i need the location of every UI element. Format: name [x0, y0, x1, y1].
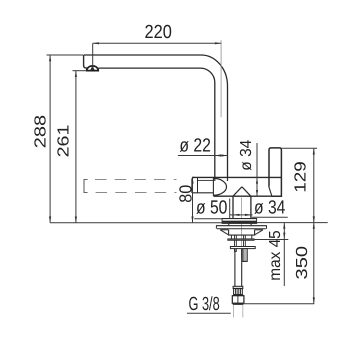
fitting bottom rim — [233, 303, 244, 305]
dimension 350 bottom extension — [244, 303, 314, 305]
second hose stub cut edge — [242, 260, 248, 262]
mounting bracket left diagonal — [220, 230, 229, 235]
dimension 261 line — [75, 71, 77, 223]
dimension diameter 22 left arrow — [215, 154, 221, 156]
body left rounded corner edge — [192, 177, 194, 193]
svg-text:220: 220 — [145, 22, 172, 43]
dimension 350 bottom arrow — [313, 297, 315, 303]
dimension 220 extension aerator center — [92, 43, 94, 70]
dimension 129 bottom arrow — [313, 216, 315, 222]
svg-text:129: 129 — [293, 161, 310, 193]
phantom pipe left — [233, 305, 235, 318]
dimension 129 top arrow — [313, 148, 315, 154]
dimension diameter 22 leader — [178, 155, 215, 157]
svg-text:288: 288 — [33, 115, 50, 148]
svg-text:80: 80 — [175, 184, 195, 202]
body cone — [233, 187, 251, 196]
dimension diameter 22 right arrow — [221, 154, 227, 156]
fitting crimp rib 4 — [240, 289, 242, 295]
max45 bottom extension line — [254, 239, 288, 241]
dashed handle top line — [95, 179, 177, 181]
dimension diameter 34 column left arrow — [233, 214, 239, 216]
body D joint chord — [212, 178, 214, 196]
dimension 288 line — [49, 55, 51, 223]
aerator center wedge — [90, 66, 95, 71]
body inner top line — [198, 179, 214, 181]
bracket neck left — [230, 235, 232, 239]
svg-text:350: 350 — [294, 246, 311, 280]
svg-text:ø 22: ø 22 — [179, 136, 211, 157]
dimension 220 left arrow — [93, 42, 99, 44]
dimension max45 up arrow — [283, 223, 285, 229]
dimension 288 top arrow — [49, 55, 51, 61]
dimension diameter 34 body up arrow — [256, 177, 258, 183]
neck right — [250, 223, 252, 225]
handle bottom wedge — [269, 187, 272, 197]
centerline — [240, 198, 242, 259]
dimension 129 top extension — [281, 147, 317, 149]
fitting crimp rib 2 — [236, 289, 238, 295]
dimension 80 line — [192, 177, 194, 222]
dimension 220 right arrow — [215, 42, 221, 44]
column below body — [232, 196, 234, 218]
handle cylinder — [269, 148, 281, 196]
dimension 288 top extension — [47, 54, 84, 56]
dimension diameter 50 drop line — [229, 199, 231, 219]
body D joint dome arc — [214, 178, 227, 195]
dimension 220 line — [93, 42, 221, 44]
dimension diameter 50 leader line — [230, 214, 253, 216]
dimension diameter 22 line — [215, 155, 228, 157]
body left bottom line — [192, 192, 213, 194]
fitting crimp ribs body — [234, 289, 243, 295]
base plate — [222, 219, 257, 224]
mounting bracket left wing — [220, 229, 228, 231]
washer bar dark (max45 reference) — [228, 239, 255, 241]
dimension diameter 50 underline to plate — [194, 218, 222, 220]
body left cap divider — [197, 178, 199, 193]
counter left end tick — [215, 226, 217, 229]
svg-text:ø 50: ø 50 — [196, 197, 227, 218]
svg-text:max 45: max 45 — [267, 230, 284, 281]
fitting hex facet line — [237, 296, 239, 304]
spout horizontal tube top outline with bend — [84, 55, 228, 177]
washer bar lower — [230, 247, 255, 249]
spout tube bottom inner line with bend — [98, 68, 215, 177]
dimension diameter 34 body line — [256, 143, 258, 196]
counter top line — [216, 225, 267, 227]
counter right end tick — [266, 226, 268, 229]
threaded stud right — [244, 235, 246, 251]
dimension 350 top arrow — [313, 223, 315, 229]
fitting hex nut — [232, 296, 244, 304]
second hose stub — [243, 249, 247, 262]
fitting collar — [233, 286, 243, 288]
fitting crimp rib 3 — [238, 289, 240, 295]
body top line — [192, 176, 281, 178]
fitting washer band — [233, 295, 243, 296]
dimension 80 bottom arrow — [191, 217, 193, 223]
hose tube right line — [241, 249, 243, 287]
dimension 261 top extension — [73, 70, 87, 72]
dimension max45 line — [283, 223, 285, 286]
svg-text:ø 34: ø 34 — [238, 140, 255, 171]
counter bottom line — [217, 228, 266, 230]
dimension diameter 34 column right arrow — [245, 214, 251, 216]
label G 3/8 underline — [187, 312, 231, 314]
dimension diameter 34 column underline — [252, 216, 288, 218]
dimension 261 bottom arrow — [75, 217, 77, 223]
column right edge — [250, 196, 252, 218]
mounting bracket right wing — [255, 229, 263, 231]
base plate gray band — [223, 220, 257, 222]
aerator dome — [87, 66, 98, 71]
bracket neck right — [251, 235, 253, 239]
spout end cap — [84, 55, 88, 68]
dimension 261 top arrow — [75, 71, 77, 77]
neck between plate and counter — [228, 223, 230, 225]
fitting crimp rib 1 — [234, 289, 236, 295]
dimension max45 down arrow — [283, 233, 285, 239]
mounting bracket cup — [229, 230, 255, 235]
hose tube left line — [234, 249, 236, 287]
base reference line left — [50, 222, 229, 224]
dashed handle swing outline bracket — [84, 180, 88, 193]
dimension 220 extension tube center — [220, 40, 222, 117]
threaded stud left — [235, 235, 237, 251]
svg-text:ø 34: ø 34 — [254, 198, 286, 219]
svg-text:G 3/8: G 3/8 — [189, 294, 220, 315]
dimension 288 bottom arrow — [49, 217, 51, 223]
base plate dark band — [222, 221, 257, 224]
dimension 350 line — [313, 223, 315, 304]
tube seat stub left — [214, 178, 216, 181]
dashed handle bottom line — [96, 192, 177, 194]
dimension diameter 34 body down arrow — [256, 190, 258, 196]
counter reference line right — [257, 222, 328, 224]
tube seat stub right — [227, 178, 229, 181]
body right bottom line — [213, 195, 281, 197]
dimension 129 line — [313, 148, 315, 222]
dimension 80 top arrow — [191, 177, 193, 183]
phantom pipe right — [242, 305, 244, 318]
mounting bracket right diagonal — [254, 230, 263, 235]
svg-text:261: 261 — [56, 124, 73, 157]
